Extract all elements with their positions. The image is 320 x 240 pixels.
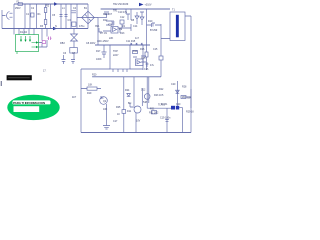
svg-text:R14: R14 xyxy=(133,50,138,53)
svg-text:C17: C17 xyxy=(113,120,118,123)
svg-text:C15: C15 xyxy=(141,57,146,60)
svg-text:C10 47u: C10 47u xyxy=(118,11,128,14)
svg-text:R12: R12 xyxy=(103,19,108,22)
svg-text:R25: R25 xyxy=(116,106,121,109)
svg-text:R31: R31 xyxy=(150,108,155,111)
svg-text:4K7: 4K7 xyxy=(72,96,77,99)
svg-text:1K: 1K xyxy=(117,113,120,116)
svg-text:C20: C20 xyxy=(171,83,176,86)
svg-text:R31 2K2: R31 2K2 xyxy=(149,112,159,115)
svg-text:R23 1K5: R23 1K5 xyxy=(154,94,164,97)
svg-text:C19 100n: C19 100n xyxy=(160,117,171,120)
svg-text:R29 1K: R29 1K xyxy=(186,111,194,114)
svg-text:C8 400V: C8 400V xyxy=(86,42,96,45)
svg-text:470u: 470u xyxy=(79,25,85,28)
svg-text:C15: C15 xyxy=(153,48,158,51)
svg-text:R24: R24 xyxy=(125,89,130,92)
svg-text:D11: D11 xyxy=(127,110,132,113)
svg-text:C12: C12 xyxy=(120,16,125,19)
svg-text:100K: 100K xyxy=(96,58,102,61)
svg-text:IC2: IC2 xyxy=(108,24,112,27)
svg-text:10K: 10K xyxy=(103,108,108,111)
svg-text:R20: R20 xyxy=(92,74,97,77)
svg-text:R13: R13 xyxy=(120,32,125,35)
svg-text:D12: D12 xyxy=(141,89,146,92)
svg-text:+310V: +310V xyxy=(145,4,152,7)
svg-text:10V: 10V xyxy=(136,120,141,123)
svg-text:R11 4K7: R11 4K7 xyxy=(103,13,113,16)
svg-text:R28: R28 xyxy=(182,86,187,89)
svg-text:C16: C16 xyxy=(144,68,149,71)
svg-text:250V: 250V xyxy=(15,7,21,10)
svg-text:D10: D10 xyxy=(148,20,153,23)
svg-text:R17: R17 xyxy=(96,50,101,53)
svg-text:35A: 35A xyxy=(95,25,100,28)
svg-text:17.: 17. xyxy=(43,70,47,73)
svg-text:TL431: TL431 xyxy=(161,103,168,106)
svg-text:D1-D4: D1-D4 xyxy=(20,31,28,34)
svg-text:47u: 47u xyxy=(150,64,155,67)
svg-text:BY299: BY299 xyxy=(150,29,158,32)
svg-text:4n7: 4n7 xyxy=(135,37,140,40)
svg-text:TOP: TOP xyxy=(113,50,118,53)
svg-text:R19: R19 xyxy=(87,92,92,95)
svg-text:BC: BC xyxy=(128,102,132,105)
svg-text:R22: R22 xyxy=(159,88,164,91)
svg-text:R16: R16 xyxy=(140,48,145,51)
svg-text:224Y: 224Y xyxy=(113,54,119,57)
svg-text:22K: 22K xyxy=(109,37,114,40)
svg-text:DB3: DB3 xyxy=(60,42,65,45)
svg-text:C11 R15: C11 R15 xyxy=(126,40,136,43)
svg-text:C20: C20 xyxy=(176,103,181,106)
svg-text:C14: C14 xyxy=(133,25,138,28)
svg-text:1N: 1N xyxy=(122,25,125,28)
svg-text:10K: 10K xyxy=(88,84,93,87)
svg-text:D7 C9: D7 C9 xyxy=(100,32,107,35)
svg-text:62K: 62K xyxy=(187,97,192,100)
svg-text:548: 548 xyxy=(143,101,148,104)
svg-text:PARA TI INFORMACION: PARA TI INFORMACION xyxy=(13,101,45,105)
svg-text:N: N xyxy=(55,25,57,28)
svg-text:TR2 2SC3039: TR2 2SC3039 xyxy=(113,3,129,6)
svg-text:100n 250V: 100n 250V xyxy=(97,40,109,43)
